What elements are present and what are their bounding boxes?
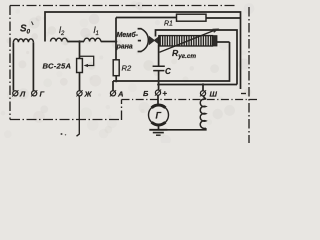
wire: R2 bottom lead bbox=[115, 76, 117, 81]
stray ink speck bbox=[61, 133, 63, 135]
terminal slash L bbox=[12, 90, 18, 96]
junction dot B on bus2 bbox=[157, 83, 160, 86]
membrane arc bbox=[141, 29, 148, 52]
wire: node vertical x=116 (R1 line to R2) bbox=[115, 18, 117, 60]
generator circle G bbox=[149, 105, 169, 125]
wire: S0 left leg to terminal L bbox=[12, 42, 14, 90]
terminal A bbox=[110, 91, 115, 96]
generator bottom stub bbox=[158, 125, 160, 129]
wire: rheostat stub from l2/l1 junction bbox=[79, 42, 81, 59]
wire: S0 right leg to terminal G bbox=[32, 42, 34, 90]
ground bar 1 bbox=[149, 129, 167, 131]
svg-text:+: + bbox=[163, 89, 168, 98]
carbon pile end cap bbox=[212, 36, 217, 46]
push rod bowtie right triangle bbox=[154, 37, 159, 45]
wire: A terminal stub bbox=[112, 81, 114, 91]
adjustment arrowhead bbox=[212, 29, 219, 33]
terminal slash G bbox=[31, 90, 37, 96]
wire between l2 and l1 bbox=[67, 41, 84, 43]
svg-text:Г: Г bbox=[40, 90, 45, 99]
svg-text:рана: рана bbox=[116, 43, 133, 51]
svg-text:Г: Г bbox=[156, 111, 162, 121]
junction dot R2 on bus bbox=[115, 80, 118, 83]
enclosure dash-dot border left bbox=[9, 6, 11, 120]
junction dot C on bus bbox=[157, 80, 160, 83]
wire: Zh lead exiting enclosure bbox=[77, 96, 80, 136]
svg-text:Л: Л bbox=[19, 90, 26, 99]
wire: carbon pile right lead bbox=[217, 41, 230, 43]
carbon pile body R ug.st bbox=[159, 36, 213, 46]
generator top brush bbox=[152, 105, 166, 108]
enclosure dash-dot border bottom right segment bbox=[122, 99, 258, 101]
junction dot l2-l1 bbox=[78, 40, 81, 43]
enclosure dash-dot border jog up bbox=[121, 100, 123, 121]
terminal slash Sh bbox=[200, 90, 206, 96]
field winding coil bbox=[200, 99, 206, 128]
wire: generator to field coil bottom bbox=[167, 128, 206, 130]
terminal slash B bbox=[155, 90, 161, 96]
capacitor C top lead bbox=[158, 44, 160, 66]
terminal B plus bbox=[155, 90, 160, 95]
terminal Sh bbox=[200, 91, 205, 96]
wire: R1 feed line bbox=[116, 17, 177, 19]
S0 winding bumps bbox=[13, 39, 33, 42]
stray tick near S0 bbox=[32, 22, 34, 26]
ground bar 2 bbox=[153, 132, 164, 134]
bus wire (plus rail) bbox=[113, 42, 230, 81]
svg-text:R2: R2 bbox=[122, 64, 132, 73]
push rod bowtie left triangle bbox=[149, 37, 154, 45]
svg-text:С: С bbox=[165, 67, 171, 76]
wire: top rail from l2 left end over the top and down right side bbox=[45, 12, 241, 89]
svg-text:ВС-25А: ВС-25А bbox=[43, 62, 72, 71]
terminal L bbox=[13, 91, 18, 96]
adjustment arrow through pile bbox=[160, 30, 215, 52]
wire: Sh terminal stub bbox=[202, 85, 204, 91]
dash-dot jog near wire exit bbox=[241, 93, 248, 95]
wire: pile left terminal up and across to right vertical bbox=[156, 30, 238, 85]
bus wire 2 (field rail) bbox=[158, 84, 237, 86]
terminal slash A bbox=[110, 90, 116, 96]
junction dot Sh on bus2 bbox=[202, 83, 205, 86]
terminal G bbox=[32, 91, 37, 96]
coil l1 bbox=[84, 38, 101, 41]
resistor R1 bbox=[177, 14, 207, 21]
rheostat wiper shorting loop bbox=[80, 56, 94, 65]
paper background bbox=[0, 0, 257, 143]
terminal slash Zh bbox=[76, 90, 82, 96]
generator stub from B terminal bbox=[157, 95, 159, 105]
svg-text:Мемб-: Мемб- bbox=[117, 31, 139, 39]
rheostat wiper arrowhead bbox=[84, 64, 89, 67]
svg-text:R1: R1 bbox=[164, 21, 173, 28]
svg-text:А: А bbox=[117, 90, 123, 99]
coil l2 bbox=[51, 38, 68, 41]
membrane mid tick bbox=[138, 40, 141, 42]
rheostat BC-25A body bbox=[77, 59, 83, 73]
resistor R2 bbox=[113, 60, 119, 76]
svg-text:Ж: Ж bbox=[84, 90, 93, 99]
ground bar 3 bbox=[156, 134, 161, 136]
wire: coil top to Sh terminal bbox=[203, 96, 206, 99]
junction dot l1-node bbox=[115, 40, 118, 43]
terminal Zh bbox=[77, 91, 82, 96]
wire: R1 right lead bbox=[206, 17, 241, 19]
membrane top tick bbox=[138, 28, 142, 30]
svg-text:Б: Б bbox=[143, 89, 149, 98]
enclosure dash-dot border top bbox=[10, 5, 236, 7]
capacitor C plates bbox=[153, 66, 165, 70]
paper mottling bbox=[1, 1, 255, 145]
enclosure dash-dot border right bbox=[248, 7, 250, 143]
wire: rheostat down to terminal Zh bbox=[79, 73, 81, 91]
wire l1 to node bbox=[101, 41, 116, 43]
generator bottom brush bbox=[152, 122, 166, 125]
svg-text:Ш: Ш bbox=[210, 90, 218, 99]
enclosure dash-dot border bottom left segment bbox=[10, 119, 122, 121]
carbon pile hatching bbox=[160, 36, 210, 46]
capacitor C bottom lead / B terminal stub bbox=[158, 71, 160, 90]
membrane bottom tick bbox=[138, 51, 142, 53]
